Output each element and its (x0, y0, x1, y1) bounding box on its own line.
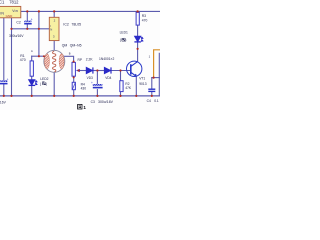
svg-text:LED2: LED2 (40, 77, 48, 81)
svg-text:00u/16V: 00u/16V (0, 100, 7, 104)
svg-text:430: 430 (81, 87, 87, 91)
svg-text:+: + (31, 17, 33, 21)
svg-text:47K: 47K (125, 86, 132, 90)
svg-text:R3: R3 (142, 14, 146, 18)
svg-text:78L05: 78L05 (71, 22, 81, 26)
svg-text:300u/16V: 300u/16V (98, 100, 114, 104)
svg-text:N: N (50, 28, 52, 32)
svg-text:QM: QM (62, 43, 68, 47)
svg-text:): ) (125, 38, 126, 42)
svg-text:IN: IN (0, 11, 4, 15)
svg-text:2.2K: 2.2K (86, 57, 94, 61)
svg-text:C3: C3 (91, 100, 95, 104)
svg-text:VT1: VT1 (139, 77, 145, 81)
svg-text:300u/16V: 300u/16V (9, 34, 24, 38)
svg-text:): ) (46, 82, 47, 86)
svg-text:VO5: VO5 (12, 9, 18, 13)
svg-text:9013: 9013 (139, 82, 147, 86)
svg-text:RP: RP (78, 58, 83, 62)
svg-text:1: 1 (83, 105, 86, 110)
svg-text:GND: GND (6, 14, 14, 18)
svg-text:LED1: LED1 (120, 30, 128, 34)
svg-text:0.1: 0.1 (154, 99, 159, 103)
svg-text:+: + (91, 81, 93, 85)
svg-text:B: B (69, 51, 71, 55)
svg-text:C4: C4 (147, 99, 151, 103)
svg-text:A: A (31, 49, 33, 53)
svg-text:IC1: IC1 (0, 0, 5, 4)
svg-text:C2: C2 (16, 20, 21, 24)
svg-text:470: 470 (20, 58, 26, 62)
svg-text:1N4001×2: 1N4001×2 (99, 57, 114, 61)
svg-text:IC2: IC2 (63, 22, 69, 26)
svg-text:470: 470 (142, 19, 148, 23)
svg-text:7812: 7812 (9, 0, 19, 4)
svg-text:+: + (7, 77, 9, 81)
svg-text:VD4: VD4 (105, 76, 111, 80)
svg-text:QM–N5: QM–N5 (70, 43, 82, 47)
svg-text:VD3: VD3 (87, 76, 93, 80)
